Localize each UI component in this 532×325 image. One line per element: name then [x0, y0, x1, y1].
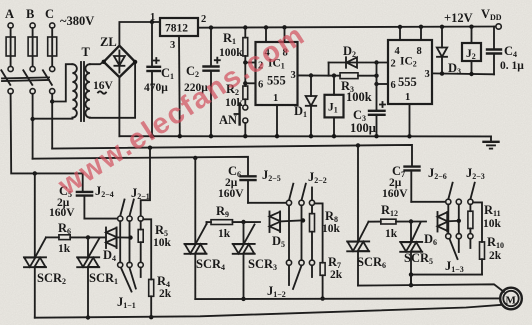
- node SCR1 cathode rail: [86, 315, 90, 319]
- fuse FU3: [48, 28, 57, 66]
- contact J2-2 terminals: [299, 200, 304, 265]
- node C1 top: [150, 20, 154, 24]
- resistor R5: [138, 221, 143, 262]
- diac D4: [106, 228, 131, 249]
- contact J2-1 terminals: [127, 216, 132, 268]
- resistor R12: [369, 219, 427, 224]
- wire phase C down: [51, 94, 53, 149]
- resistor R2: [243, 86, 248, 99]
- wire rail C to right block: [52, 145, 412, 167]
- node D1 top: [309, 73, 313, 77]
- fuse FU2: [28, 28, 37, 66]
- node 7812 pin3 ground: [178, 134, 182, 138]
- motor M: [500, 288, 522, 310]
- ground symbol: [484, 136, 499, 148]
- node rail C SCR6 drop: [356, 143, 360, 147]
- bottom rail left block to motor: [35, 305, 503, 318]
- bridge rectifier ZL: [104, 46, 135, 77]
- op-amp timer IC1 555: [256, 42, 298, 105]
- stub above R8 chain: [311, 188, 313, 201]
- wire IC2 pin1 to ground: [409, 104, 411, 136]
- node IC1 pin1 ground: [275, 134, 279, 138]
- node AN ground: [243, 134, 247, 138]
- stub below R8 contact: [311, 265, 313, 277]
- node D3 top: [440, 25, 444, 29]
- fuse FU1: [6, 28, 15, 66]
- stub below R11 contact: [469, 239, 471, 248]
- capacitor C2: [204, 28, 220, 137]
- wire rail C drop to R5 chain: [141, 148, 150, 216]
- contact J2-6 terminals: [446, 199, 451, 239]
- stub below J2-1 contact: [130, 268, 136, 289]
- diac D5: [270, 212, 304, 233]
- terminal C: [50, 23, 55, 28]
- contact J2-6 blade: [448, 183, 452, 200]
- resistor R10: [480, 242, 485, 275]
- stub below J2-5 contact: [288, 265, 290, 285]
- wire IC1 pin4: [265, 27, 267, 42]
- capacitor C5: [77, 192, 118, 219]
- ground rail of control section: [119, 135, 491, 137]
- node R4 bottom: [149, 315, 153, 319]
- terminal B: [30, 23, 35, 28]
- node pin6 junction: [243, 81, 247, 85]
- node D2/C3 junction top: [374, 60, 378, 64]
- wire bridge top to 7812 input: [119, 22, 160, 46]
- node SCR3 anode junction: [241, 220, 245, 224]
- node IC2 pin4: [398, 25, 402, 29]
- wire IC1 pin6: [245, 82, 255, 84]
- node IC2 pin6 tie: [374, 82, 378, 86]
- wire IC2 pin4: [399, 27, 401, 40]
- paper noise overlay: [0, 0, 1, 1]
- wire IC1 pin8: [284, 27, 286, 42]
- capacitor C7: [405, 167, 446, 202]
- node rail C left-block drop: [148, 146, 152, 150]
- node C2 top: [209, 25, 213, 29]
- transformer T primary winding: [72, 64, 76, 117]
- resistor R1: [243, 28, 248, 87]
- node IC2 pin1 ground: [407, 134, 411, 138]
- contact J2-5 blade: [289, 184, 293, 201]
- wire IC1 pin2: [245, 62, 255, 64]
- contact J2-4 blade: [120, 200, 124, 217]
- switch QS pole C: [43, 66, 55, 93]
- resistor R8: [310, 205, 315, 260]
- node SCR5 rail junction: [409, 272, 413, 276]
- resistor R9: [207, 220, 261, 225]
- wire IC2 pin8: [420, 27, 422, 40]
- thyristor SCR5: [400, 222, 422, 286]
- node J2 bottom: [469, 72, 473, 76]
- stub below middle contact right block: [458, 239, 460, 252]
- wire C to transformer primary top: [52, 64, 72, 101]
- wire IC1 pin1 to ground: [276, 105, 278, 136]
- wire bridge bottom to ground rail: [118, 77, 120, 136]
- thyristor SCR3: [233, 222, 255, 299]
- node IC1 pin4: [264, 25, 268, 29]
- resistor R6: [46, 235, 106, 240]
- wire IC2 pin3 line: [432, 72, 494, 75]
- node C-primary junction: [50, 99, 54, 103]
- node D3 bottom: [440, 71, 444, 75]
- thyristor SCR2: [24, 173, 46, 317]
- contact J2-2 blade: [302, 184, 306, 201]
- node D6 to contact line: [457, 219, 461, 223]
- diode D3: [437, 27, 447, 74]
- node SCR5 on motor line: [409, 283, 413, 287]
- motor feed line from right block: [358, 284, 504, 292]
- node R1 top: [243, 25, 247, 29]
- contact J1-2 blade: [293, 266, 302, 289]
- pushbutton AN: [235, 99, 248, 136]
- thyristor SCR4: [185, 158, 207, 299]
- wire jog to R4: [143, 219, 151, 279]
- node IC2 pin8: [419, 25, 423, 29]
- wire phase A down and to C5 block: [11, 94, 83, 192]
- diode D1: [306, 76, 317, 137]
- node R5 bottom terminal: [138, 262, 143, 267]
- capacitor C6: [241, 176, 287, 203]
- bottom rail middle block to motor: [195, 297, 500, 300]
- capacitor C3: [369, 63, 385, 137]
- node rail B SCR4 drop: [193, 156, 197, 160]
- node J2 coil top: [469, 25, 473, 29]
- thyristor SCR1: [77, 237, 99, 317]
- node SCR1 anode junction: [86, 235, 90, 239]
- node pin2 junction: [243, 60, 247, 64]
- contact J2-3 blade: [470, 183, 474, 200]
- wire secondary bottom to bridge right: [90, 62, 135, 118]
- wire 7812 pin3 to ground: [178, 36, 181, 136]
- capacitor C1: [148, 22, 161, 136]
- node bridge right vertex: [133, 60, 137, 64]
- wire IC2 pin6: [377, 83, 389, 85]
- node R8 bottom terminal: [309, 260, 314, 265]
- contact middle terminals right block: [456, 199, 461, 239]
- contact J2-1 blade: [130, 200, 134, 217]
- capacitor C4: [487, 27, 501, 75]
- node bridge left vertex: [102, 60, 106, 64]
- switch QS tie bar: [2, 77, 49, 78]
- right block local rail: [411, 274, 482, 276]
- wire SCR5 down to line: [410, 275, 412, 286]
- node R8 top terminal: [309, 200, 314, 205]
- node J1 ground: [332, 134, 336, 138]
- transformer T secondary winding: [85, 64, 89, 117]
- node SCR5 anode junction: [409, 219, 413, 223]
- wire secondary top to bridge: [90, 62, 104, 65]
- wire phase B down: [32, 94, 34, 159]
- switch QS pole A: [1, 66, 13, 93]
- node J1 coil top: [332, 73, 336, 77]
- wire B to transformer primary bottom: [33, 118, 73, 120]
- contact J2-4 terminals: [118, 216, 123, 268]
- node IC1 pin8: [282, 25, 286, 29]
- node D4 to contact line: [128, 235, 132, 239]
- contact J2-5 terminals: [286, 200, 291, 265]
- resistor R4: [149, 279, 154, 317]
- stub below R5 contact: [140, 268, 142, 278]
- contact J1-1 blade: [121, 268, 132, 292]
- resistor R11: [468, 204, 473, 233]
- wire 7812 output rail +12V: [198, 27, 496, 28]
- resistor R3: [340, 73, 377, 79]
- node C1 ground: [150, 134, 154, 138]
- wire IC1 pin3 output: [298, 74, 341, 76]
- node R5 top terminal: [138, 216, 143, 221]
- label 16V: [93, 80, 114, 94]
- node D1 ground: [309, 134, 313, 138]
- transformer T core: [81, 62, 84, 121]
- node R3 right: [374, 74, 378, 78]
- node R11 bottom terminal: [468, 234, 473, 239]
- wire jog to R7: [315, 203, 323, 262]
- regulator 7812: [160, 18, 198, 36]
- contact J1-3 blade: [450, 239, 458, 259]
- node R7 bottom: [320, 296, 324, 300]
- resistor R7: [320, 263, 325, 299]
- terminal A: [8, 23, 13, 28]
- relay coil J1: [325, 76, 344, 137]
- relay coil J2: [462, 27, 481, 74]
- node R11 top terminal: [468, 199, 473, 204]
- wire rail B to middle block: [33, 157, 248, 177]
- node D5 to contact line: [301, 218, 305, 222]
- timer IC2 555: [388, 40, 432, 104]
- switch QS pole B: [23, 66, 35, 93]
- terminal VDD: [496, 24, 501, 29]
- wire jog to R10: [473, 202, 482, 242]
- node B-primary junction: [30, 117, 34, 121]
- node A-SCR2 junction: [33, 171, 37, 175]
- diac D6: [438, 212, 459, 232]
- node C2 ground: [209, 134, 213, 138]
- node SCR3 cathode rail: [241, 297, 245, 301]
- node C3 ground: [374, 134, 378, 138]
- thyristor SCR6: [347, 145, 369, 285]
- diode D2: [329, 57, 388, 75]
